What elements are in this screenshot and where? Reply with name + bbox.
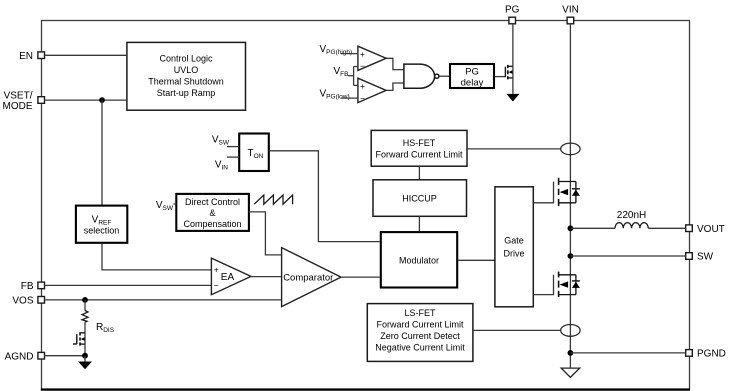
wire PG pin to FET drain — [512, 24, 514, 94]
transistor HS FET — [559, 178, 580, 206]
wire comparator low output to NAND — [386, 83, 404, 90]
svg-text:EN: EN — [19, 51, 33, 62]
wire node to analog ground — [84, 356, 86, 362]
wire VSET/MODE to Control Logic — [45, 99, 127, 101]
svg-text:selection: selection — [84, 226, 120, 236]
svg-text:Gate: Gate — [504, 235, 524, 245]
pin AGND — [5, 351, 45, 362]
wire HICCUP to Modulator — [418, 216, 420, 231]
svg-text:−: − — [360, 93, 365, 103]
transistor PG FET — [505, 65, 513, 80]
svg-text:Control Logic: Control Logic — [159, 53, 213, 63]
current sensor LS — [561, 325, 580, 337]
wire SW junction to SW pin — [570, 255, 685, 257]
wire LS-FET box to current sensor — [473, 329, 561, 331]
svg-text:Thermal Shutdown: Thermal Shutdown — [148, 76, 224, 86]
comparator U_PGL (VPG(low)) — [358, 78, 386, 103]
block Modulator — [381, 232, 457, 287]
wire NAND to PG delay — [439, 75, 449, 77]
svg-text:Comparator: Comparator — [283, 273, 333, 284]
svg-text:FB: FB — [21, 281, 34, 292]
wire VPG(high) input — [341, 53, 358, 55]
wire TON input stubs — [227, 147, 239, 158]
block Gate Drive — [495, 187, 533, 307]
pin VSET/MODE — [3, 91, 45, 113]
wire PG delay to PG FET gate — [495, 76, 505, 78]
current sensor HS — [561, 143, 580, 155]
wire VSW stub — [174, 203, 177, 205]
pin FB — [21, 281, 45, 292]
svg-text:Direct Control: Direct Control — [185, 197, 240, 207]
ground PG FET — [506, 94, 519, 102]
svg-text:Negative Current Limit: Negative Current Limit — [375, 343, 465, 353]
node VOS junction — [82, 297, 88, 303]
wire VOS junction to RDIS — [84, 300, 86, 311]
svg-text:HICCUP: HICCUP — [402, 194, 437, 204]
svg-text:+: + — [360, 81, 365, 91]
transistor discharge FET — [73, 332, 85, 345]
pin PG — [505, 5, 520, 24]
block HS-FET Forward Current Limit — [371, 130, 467, 166]
svg-text:AGND: AGND — [5, 351, 34, 362]
svg-text:VOS: VOS — [12, 296, 33, 307]
wire inductor to VOUT pin — [648, 227, 686, 229]
resistor RDIS — [82, 311, 115, 334]
ground AGND — [78, 362, 92, 370]
wire VSET junction down to VREF selection — [101, 100, 103, 205]
wire VFB to both comparators — [348, 67, 358, 86]
wire HS-FET box to HICCUP — [418, 166, 420, 180]
label VPG(low) — [320, 88, 350, 100]
wire comparator high output to NAND — [386, 58, 404, 69]
svg-text:Forward Current Limit: Forward Current Limit — [375, 149, 463, 159]
svg-text:Compensation: Compensation — [183, 219, 241, 229]
block Control Logic — [127, 42, 246, 110]
block HICCUP — [373, 180, 467, 217]
pin PGND — [686, 349, 726, 360]
wire VREF selection to EA plus input — [102, 244, 211, 270]
wire FB to EA minus input — [45, 284, 212, 286]
pin EN — [19, 51, 44, 62]
transistor LS FET — [559, 272, 580, 298]
svg-text:PGND: PGND — [697, 349, 726, 360]
svg-text:MODE: MODE — [3, 101, 33, 112]
NAND gate U_PG — [404, 64, 439, 88]
svg-text:delay: delay — [461, 78, 484, 89]
comparator U_PGH (VPG(high)) — [358, 46, 386, 71]
svg-text:PG: PG — [505, 5, 520, 16]
block TON — [239, 134, 269, 172]
wire Modulator to Gate Drive — [458, 259, 495, 261]
block LS-FET limits — [367, 304, 473, 362]
wire comparator to Modulator — [341, 276, 380, 278]
pin VOUT — [686, 224, 725, 235]
block Direct Control & Compensation — [176, 194, 249, 231]
pin VIN — [562, 5, 579, 24]
wire to inductor — [570, 227, 615, 229]
block VREF selection — [76, 206, 127, 243]
label VFB — [334, 66, 349, 78]
svg-text:+: + — [360, 49, 365, 59]
wire VIN rail — [569, 24, 571, 368]
comparator main — [282, 248, 341, 307]
node SW junction — [568, 253, 574, 259]
svg-text:+: + — [214, 264, 219, 274]
wire EA to comparator — [251, 276, 282, 278]
inductor L1 220nH — [615, 210, 648, 228]
svg-text:LS-FET: LS-FET — [404, 308, 436, 318]
wire HS-FET box to current sensor — [467, 148, 561, 150]
op-amp EA — [211, 258, 251, 295]
svg-text:UVLO: UVLO — [174, 65, 199, 75]
ground power stage — [561, 368, 580, 377]
node SW-VOUT junction — [568, 225, 574, 231]
node AGND junction — [82, 353, 88, 359]
svg-text:VIN: VIN — [562, 5, 579, 16]
wire AGND to node — [45, 355, 86, 357]
pin VOS — [12, 296, 44, 307]
svg-text:&: & — [209, 208, 215, 218]
svg-text:Drive: Drive — [503, 248, 524, 258]
wire RDIS to FET — [84, 322, 86, 356]
svg-text:Modulator: Modulator — [399, 255, 439, 265]
svg-text:220nH: 220nH — [617, 210, 646, 221]
wire VPG(low) input — [341, 97, 358, 99]
wire Direct Control to comparator — [249, 212, 282, 255]
pin SW — [686, 252, 714, 263]
svg-text:Start-up Ramp: Start-up Ramp — [157, 88, 216, 98]
svg-text:HS-FET: HS-FET — [403, 138, 436, 148]
label VPG(high) — [320, 44, 353, 56]
svg-text:−: − — [360, 61, 365, 71]
svg-text:Zero Current Detect: Zero Current Detect — [380, 331, 460, 341]
wire EN to Control Logic — [45, 54, 127, 56]
wire Gate Drive to LS FET gate — [533, 275, 553, 295]
svg-text:−: − — [214, 280, 219, 290]
svg-text:PG: PG — [465, 67, 479, 78]
svg-text:VOUT: VOUT — [697, 224, 725, 235]
wire VOS to comparator — [45, 299, 282, 301]
wire PGND junction to PGND pin — [570, 352, 685, 354]
svg-text:EA: EA — [221, 272, 235, 283]
svg-text:VSET/: VSET/ — [4, 91, 33, 102]
wire TON to Modulator — [269, 151, 380, 242]
wire Gate Drive to HS FET gate — [533, 182, 553, 203]
sawtooth waveform — [254, 195, 292, 204]
block PG delay — [450, 64, 494, 89]
svg-text:SW: SW — [697, 252, 714, 263]
svg-text:Forward Current Limit: Forward Current Limit — [376, 320, 464, 330]
node VSET junction — [99, 97, 105, 103]
node PGND junction — [568, 350, 574, 356]
